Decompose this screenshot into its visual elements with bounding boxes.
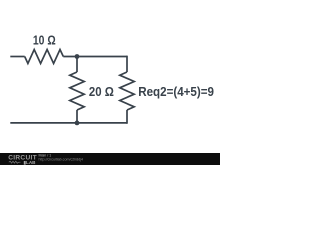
footer: black bar — [0, 153, 220, 165]
wire: R3 bottom lead to corner — [126, 110, 128, 124]
svg-text:20 Ω: 20 Ω — [89, 84, 114, 99]
footer logo: resistor squiggle — [9, 161, 21, 163]
svg-text:▮LAB: ▮LAB — [24, 160, 37, 165]
resistor R2 (20 Ω) vertical zigzag — [70, 72, 84, 110]
resistor R3 (Req2) vertical zigzag — [120, 72, 134, 110]
svg-text:Req2=(4+5)=9: Req2=(4+5)=9 — [138, 84, 214, 99]
wire: top-left lead — [10, 56, 24, 58]
node junction dot: bottom — [75, 121, 80, 126]
wire: bottom node — [10, 122, 127, 124]
svg-text:10 Ω: 10 Ω — [33, 33, 56, 48]
wire: top node segment from R1 to corner — [63, 56, 127, 58]
node junction dot: top — [75, 54, 80, 59]
wire: corner down to R3 top lead — [126, 56, 128, 72]
wire: R2 top lead — [76, 57, 78, 73]
svg-text:http://circuitlab.com/c2h8dj4: http://circuitlab.com/c2h8dj4 — [39, 157, 84, 161]
wire: R2 bottom lead — [76, 110, 78, 123]
resistor R1 (10 Ω) horizontal zigzag — [25, 50, 64, 64]
